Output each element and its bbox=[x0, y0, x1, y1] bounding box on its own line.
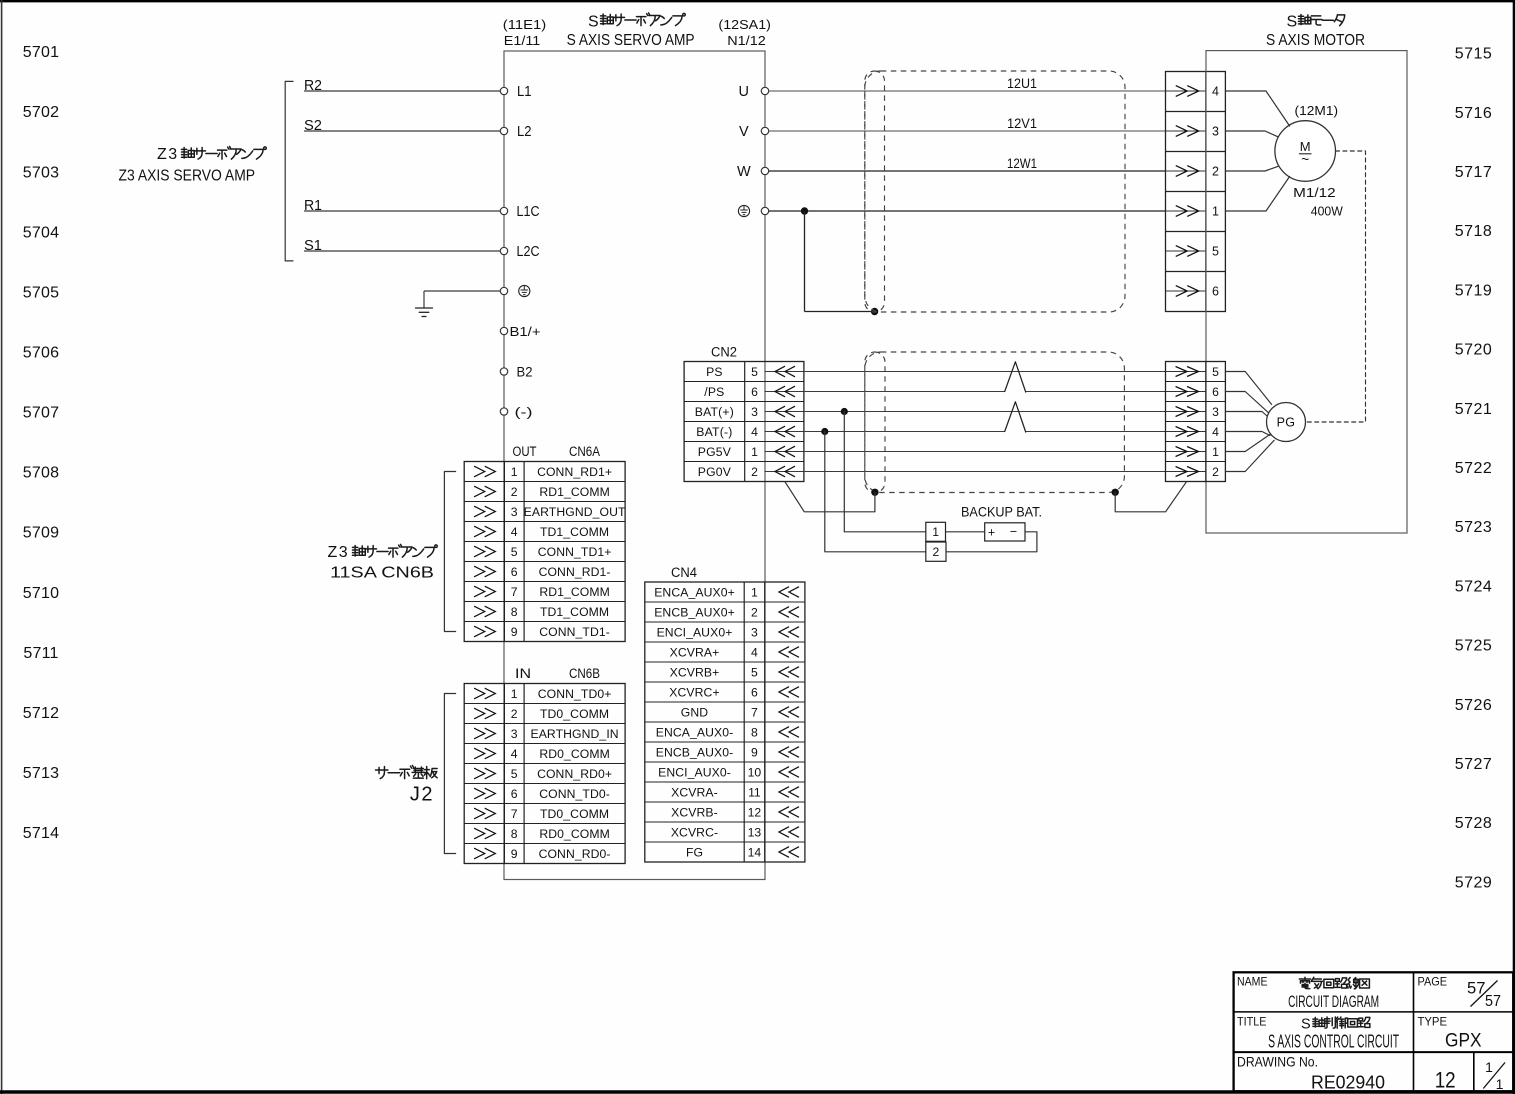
wire through arrow cell encoder pin 5 bbox=[1166, 371, 1206, 373]
svg-text:CONN_RD0-: CONN_RD0- bbox=[539, 847, 611, 861]
junction shield left drain bbox=[871, 489, 878, 496]
svg-text:6: 6 bbox=[751, 685, 758, 699]
svg-text:XCVRB+: XCVRB+ bbox=[670, 665, 720, 679]
svg-text:6: 6 bbox=[1212, 385, 1219, 399]
svg-text:2: 2 bbox=[1212, 165, 1219, 179]
svg-text:10: 10 bbox=[748, 765, 762, 779]
svg-text:5726: 5726 bbox=[1455, 697, 1493, 714]
svg-text:Z3: Z3 bbox=[328, 544, 350, 561]
svg-text:CN2: CN2 bbox=[711, 345, 737, 360]
svg-text:CONN_TD0+: CONN_TD0+ bbox=[538, 687, 612, 701]
svg-text:PG: PG bbox=[1277, 416, 1296, 430]
svg-text:5721: 5721 bbox=[1455, 401, 1493, 418]
svg-text:CONN_RD0+: CONN_RD0+ bbox=[537, 767, 612, 781]
svg-text:ENCB_AUX0-: ENCB_AUX0- bbox=[656, 745, 734, 759]
svg-text:5707: 5707 bbox=[23, 405, 59, 422]
terminal L1C bbox=[500, 207, 507, 214]
wire encoder block shield drain bbox=[1115, 482, 1186, 512]
wire CN2 /PS to motor encoder (left of twist) bbox=[765, 391, 1005, 393]
svg-text:S AXIS CONTROL CIRCUIT: S AXIS CONTROL CIRCUIT bbox=[1268, 1030, 1399, 1051]
sheet fraction slash bbox=[1483, 1063, 1505, 1089]
wire pin3 to motor bbox=[1225, 131, 1278, 137]
svg-text:4: 4 bbox=[511, 747, 518, 761]
arrow in CN6B pin 4 bbox=[474, 748, 495, 759]
label servo board J2 (JP) bbox=[376, 767, 388, 779]
svg-text:14: 14 bbox=[748, 845, 762, 859]
terminal L2C bbox=[500, 247, 507, 254]
wire S1 to terminal L2C bbox=[304, 250, 500, 252]
earth symbol at amp output bbox=[738, 205, 749, 216]
wire pin2 to motor bbox=[1225, 166, 1277, 171]
svg-text:7: 7 bbox=[511, 807, 518, 821]
svg-text:GPX: GPX bbox=[1445, 1029, 1482, 1051]
svg-text:9: 9 bbox=[511, 847, 518, 861]
svg-text:XCVRB-: XCVRB- bbox=[671, 805, 718, 819]
arrow in CN6B pin 1 bbox=[474, 688, 495, 699]
terminal L1 bbox=[500, 87, 507, 94]
svg-text:1: 1 bbox=[1212, 205, 1219, 219]
svg-text:L2: L2 bbox=[517, 124, 532, 140]
svg-text:5701: 5701 bbox=[23, 44, 59, 61]
dashed link motor shaft to PG encoder bbox=[1306, 151, 1366, 422]
svg-text:CIRCUIT DIAGRAM: CIRCUIT DIAGRAM bbox=[1288, 992, 1379, 1011]
wire battery- loop to pin2 bbox=[946, 532, 1037, 552]
svg-text:11: 11 bbox=[748, 785, 761, 799]
arrow into CN4 pin 10 bbox=[779, 767, 799, 778]
svg-text:L2C: L2C bbox=[517, 244, 540, 260]
wire through arrow cell pin 2 bbox=[1166, 170, 1206, 172]
svg-text:1: 1 bbox=[511, 687, 518, 701]
svg-text:5715: 5715 bbox=[1455, 46, 1493, 63]
svg-text:4: 4 bbox=[1212, 425, 1219, 439]
arrow into motor pin 4 bbox=[1176, 86, 1199, 97]
svg-text:S AXIS SERVO AMP: S AXIS SERVO AMP bbox=[567, 32, 695, 49]
svg-text:ENCI_AUX0-: ENCI_AUX0- bbox=[658, 765, 731, 779]
wire CN2 shield drain bbox=[785, 482, 875, 512]
op-amp enclosure U-SA S AXIS SERVO AMP box bbox=[504, 51, 765, 880]
wire CN2 PG0V to motor encoder bbox=[765, 471, 1166, 473]
svg-text:NAME: NAME bbox=[1237, 974, 1268, 988]
svg-text:CN6B: CN6B bbox=[569, 666, 600, 681]
wire through arrow cell encoder pin 4 bbox=[1166, 431, 1206, 433]
svg-text:12U1: 12U1 bbox=[1007, 76, 1037, 91]
wire CN2 PG5V to motor encoder bbox=[765, 451, 1166, 453]
battery BACKUP BAT symbol box bbox=[985, 523, 1025, 541]
svg-text:1: 1 bbox=[511, 465, 518, 479]
svg-text:5719: 5719 bbox=[1455, 282, 1493, 299]
svg-text:1: 1 bbox=[932, 525, 939, 539]
svg-text:~: ~ bbox=[1301, 152, 1309, 167]
junction PE shield tap bbox=[801, 207, 808, 214]
svg-text:3: 3 bbox=[1212, 125, 1219, 139]
svg-text:1: 1 bbox=[1485, 1059, 1493, 1075]
svg-text:DRAWING No.: DRAWING No. bbox=[1237, 1053, 1318, 1069]
arrow into CN4 pin 7 bbox=[779, 707, 799, 718]
svg-text:2: 2 bbox=[511, 485, 518, 499]
svg-text:PS: PS bbox=[706, 365, 723, 379]
arrow into CN4 pin 2 bbox=[779, 607, 799, 618]
svg-text:R1: R1 bbox=[304, 198, 322, 214]
svg-text:XCVRA+: XCVRA+ bbox=[670, 645, 720, 659]
svg-text:400W: 400W bbox=[1311, 204, 1344, 219]
arrow into encoder pin 2 bbox=[1176, 467, 1199, 477]
svg-text:V: V bbox=[739, 124, 749, 140]
wire 12U1 bbox=[769, 90, 1166, 92]
svg-text:EARTHGND_OUT: EARTHGND_OUT bbox=[524, 505, 626, 519]
svg-text:ENCA_AUX0-: ENCA_AUX0- bbox=[656, 725, 734, 739]
svg-text:S: S bbox=[1287, 14, 1298, 31]
svg-text:(12SA1): (12SA1) bbox=[718, 18, 771, 32]
svg-text:S1: S1 bbox=[304, 238, 322, 254]
svg-text:−: − bbox=[1010, 524, 1017, 538]
svg-text:5712: 5712 bbox=[23, 705, 59, 722]
page fraction slash bbox=[1471, 981, 1498, 1007]
arrow into CN2 pin 6 bbox=[775, 386, 795, 397]
svg-text:EARTHGND_IN: EARTHGND_IN bbox=[530, 727, 618, 741]
svg-text:B1/+: B1/+ bbox=[510, 324, 541, 339]
svg-text:TD1_COMM: TD1_COMM bbox=[540, 525, 609, 539]
svg-text:3: 3 bbox=[1212, 405, 1219, 419]
svg-text:RD0_COMM: RD0_COMM bbox=[539, 827, 610, 841]
connector CN6A table bbox=[464, 462, 625, 642]
svg-text:5724: 5724 bbox=[1455, 578, 1493, 595]
svg-text:3: 3 bbox=[511, 505, 518, 519]
svg-text:11SA CN6B: 11SA CN6B bbox=[330, 565, 434, 582]
svg-text:1: 1 bbox=[751, 445, 758, 459]
arrow into CN2 pin 4 bbox=[775, 426, 795, 437]
svg-text:5722: 5722 bbox=[1455, 460, 1493, 477]
terminal U on amp bbox=[761, 87, 768, 94]
svg-text:7: 7 bbox=[511, 585, 518, 599]
svg-text:B2: B2 bbox=[517, 364, 533, 379]
svg-text:3: 3 bbox=[751, 625, 758, 639]
svg-text:CONN_TD0-: CONN_TD0- bbox=[539, 787, 610, 801]
svg-text:S2: S2 bbox=[304, 118, 322, 134]
arrow into encoder pin 1 bbox=[1176, 447, 1199, 457]
connector CN4 table bbox=[645, 582, 805, 862]
svg-text:3: 3 bbox=[751, 405, 758, 419]
terminal V on amp bbox=[761, 127, 768, 134]
svg-text:FG: FG bbox=[686, 845, 703, 859]
wire PE to ground bbox=[424, 290, 500, 292]
title block bbox=[1234, 972, 1514, 1091]
encoder PG circle bbox=[1267, 403, 1306, 442]
svg-text:E1/11: E1/11 bbox=[504, 33, 541, 48]
wire CN2 PS to motor encoder bbox=[765, 371, 1166, 373]
motor enclosure S AXIS MOTOR box bbox=[1206, 51, 1407, 533]
arrow in CN6B pin 2 bbox=[474, 708, 495, 719]
svg-text:BACKUP BAT.: BACKUP BAT. bbox=[961, 504, 1042, 520]
terminal (-) bbox=[500, 408, 507, 415]
svg-text:TD1_COMM: TD1_COMM bbox=[540, 605, 609, 619]
svg-text:J2: J2 bbox=[410, 784, 434, 806]
svg-text:13: 13 bbox=[748, 825, 762, 839]
svg-text:TITLE: TITLE bbox=[1237, 1015, 1267, 1029]
wire CN2 BAT(-) to motor encoder (right of twist) bbox=[1026, 431, 1166, 433]
connector block motor encoder pins bbox=[1166, 362, 1226, 482]
twist crossover BAT pair bbox=[1005, 402, 1026, 432]
svg-text:6: 6 bbox=[751, 385, 758, 399]
svg-text:TD0_COMM: TD0_COMM bbox=[540, 707, 609, 721]
svg-text:ENCI_AUX0+: ENCI_AUX0+ bbox=[657, 625, 733, 639]
wire CN2 BAT(-) to motor encoder (left of twist) bbox=[765, 431, 1005, 433]
wire 12V1 bbox=[769, 130, 1166, 132]
svg-text:N1/12: N1/12 bbox=[727, 33, 766, 48]
svg-text:12: 12 bbox=[1435, 1068, 1456, 1093]
svg-text:5710: 5710 bbox=[23, 585, 59, 602]
wire S2 to terminal L2 bbox=[304, 130, 500, 132]
svg-text:GND: GND bbox=[681, 705, 708, 719]
wire shield drain vertical bbox=[804, 211, 806, 312]
svg-text:5723: 5723 bbox=[1455, 519, 1493, 536]
wire through arrow cell pin 5 bbox=[1166, 250, 1206, 252]
svg-text:L1: L1 bbox=[517, 84, 532, 100]
wire CN2 /PS to motor encoder (right of twist) bbox=[1026, 391, 1166, 393]
arrow into CN4 pin 4 bbox=[779, 647, 799, 658]
arrow into CN2 pin 1 bbox=[775, 446, 795, 457]
arrow into CN4 pin 12 bbox=[779, 807, 799, 818]
wire encoder pin3 to PG bbox=[1225, 412, 1267, 417]
wire ground drop bbox=[423, 291, 425, 308]
wire pin1 to motor bbox=[1225, 177, 1289, 212]
svg-text:5728: 5728 bbox=[1455, 815, 1493, 832]
svg-text:XCVRC+: XCVRC+ bbox=[669, 685, 719, 699]
svg-text:5704: 5704 bbox=[23, 224, 59, 241]
svg-text:12V1: 12V1 bbox=[1007, 116, 1037, 131]
svg-text:2: 2 bbox=[1212, 465, 1219, 479]
svg-text:CONN_RD1-: CONN_RD1- bbox=[539, 565, 611, 579]
svg-text:5705: 5705 bbox=[23, 284, 59, 301]
svg-text:5714: 5714 bbox=[23, 825, 59, 842]
arrow in CN6B pin 9 bbox=[474, 848, 495, 859]
svg-text:2: 2 bbox=[511, 707, 518, 721]
wire encoder pin5 to PG bbox=[1225, 372, 1271, 405]
arrow in CN6B pin 7 bbox=[474, 808, 495, 819]
arrow out CN6A pin 3 bbox=[474, 506, 495, 517]
svg-text:5708: 5708 bbox=[23, 465, 59, 482]
svg-text:CN4: CN4 bbox=[671, 565, 697, 580]
wire encoder pin2 to PG bbox=[1225, 440, 1274, 471]
svg-text:XCVRA-: XCVRA- bbox=[671, 785, 718, 799]
bracket CN6A to Z3 amp bbox=[444, 472, 455, 632]
bracket for Z3 amp source wires bbox=[285, 81, 293, 261]
svg-text:5: 5 bbox=[751, 365, 758, 379]
wire through arrow cell encoder pin 3 bbox=[1166, 411, 1206, 413]
svg-text:CONN_TD1-: CONN_TD1- bbox=[539, 625, 610, 639]
junction BAT(+) tap bbox=[841, 408, 848, 415]
svg-text:5725: 5725 bbox=[1455, 638, 1493, 655]
svg-text:(-): (-) bbox=[515, 405, 533, 420]
arrow into CN4 pin 8 bbox=[779, 727, 799, 738]
terminal B1/+ bbox=[500, 327, 507, 334]
svg-text:9: 9 bbox=[511, 625, 518, 639]
arrow in CN6B pin 5 bbox=[474, 768, 495, 779]
twist crossover PS//PS pair bbox=[1005, 362, 1026, 392]
svg-text:4: 4 bbox=[511, 525, 518, 539]
svg-text:TYPE: TYPE bbox=[1418, 1015, 1448, 1029]
wire encoder pin4 to PG bbox=[1225, 432, 1270, 436]
arrow in CN6B pin 8 bbox=[474, 828, 495, 839]
arrow out CN6A pin 2 bbox=[474, 486, 495, 497]
svg-text:5: 5 bbox=[751, 665, 758, 679]
earth symbol at PE terminal bbox=[519, 285, 530, 296]
svg-text:8: 8 bbox=[511, 827, 518, 841]
svg-text:57: 57 bbox=[1485, 993, 1501, 1010]
junction shield connection upper cable bbox=[871, 308, 878, 315]
svg-text:4: 4 bbox=[1212, 85, 1219, 99]
svg-text:M1/12: M1/12 bbox=[1293, 185, 1336, 200]
svg-text:RD1_COMM: RD1_COMM bbox=[539, 485, 610, 499]
svg-text:ENCA_AUX0+: ENCA_AUX0+ bbox=[654, 585, 735, 599]
connector CN6B table bbox=[464, 684, 625, 864]
arrow into motor pin 5 bbox=[1176, 246, 1199, 257]
arrow into encoder pin 4 bbox=[1176, 427, 1199, 437]
svg-text:XCVRC-: XCVRC- bbox=[671, 825, 718, 839]
svg-text:6: 6 bbox=[511, 565, 518, 579]
svg-text:2: 2 bbox=[751, 465, 758, 479]
svg-text:5717: 5717 bbox=[1455, 164, 1493, 181]
wire through arrow cell pin 6 bbox=[1166, 290, 1206, 292]
arrow into encoder pin 5 bbox=[1176, 367, 1199, 377]
arrow out CN6A pin 8 bbox=[474, 606, 495, 617]
svg-text:RE02940: RE02940 bbox=[1311, 1071, 1385, 1092]
svg-text:1: 1 bbox=[1496, 1076, 1504, 1092]
junction BAT(-) tap bbox=[821, 428, 828, 435]
arrow into motor pin 2 bbox=[1176, 166, 1199, 177]
connector CN2 table bbox=[684, 362, 804, 482]
arrow into CN4 pin 5 bbox=[779, 667, 799, 678]
JP title S AXIS CONTROL CIRCUIT bbox=[1313, 1017, 1325, 1027]
wire through arrow cell encoder pin 1 bbox=[1166, 451, 1206, 453]
svg-text:6: 6 bbox=[1212, 285, 1219, 299]
wire encoder pin1 to PG bbox=[1225, 434, 1270, 451]
junction shield right drain bbox=[1112, 489, 1119, 496]
JP title CIRCUIT DIAGRAM bbox=[1299, 977, 1310, 988]
arrow in CN6B pin 6 bbox=[474, 788, 495, 799]
svg-text:4: 4 bbox=[751, 425, 758, 439]
svg-text:RD1_COMM: RD1_COMM bbox=[539, 585, 610, 599]
arrow into CN4 pin 14 bbox=[779, 847, 799, 858]
svg-text:6: 6 bbox=[511, 787, 518, 801]
svg-text:5: 5 bbox=[511, 767, 518, 781]
svg-text:IN: IN bbox=[515, 666, 531, 681]
arrow into CN2 pin 3 bbox=[775, 406, 795, 417]
wire PE to motor bbox=[769, 210, 1166, 212]
svg-text:5711: 5711 bbox=[23, 645, 58, 662]
svg-text:RD0_COMM: RD0_COMM bbox=[539, 747, 610, 761]
svg-text:8: 8 bbox=[511, 605, 518, 619]
svg-text:BAT(+): BAT(+) bbox=[695, 405, 734, 419]
arrow out CN6A pin 9 bbox=[474, 626, 495, 637]
arrow into CN4 pin 1 bbox=[779, 587, 799, 598]
svg-text:5709: 5709 bbox=[23, 525, 59, 542]
svg-text:7: 7 bbox=[751, 705, 758, 719]
svg-text:CONN_TD1+: CONN_TD1+ bbox=[538, 545, 612, 559]
svg-text:S AXIS MOTOR: S AXIS MOTOR bbox=[1266, 32, 1365, 49]
arrow into CN4 pin 3 bbox=[779, 627, 799, 638]
arrow into motor pin 6 bbox=[1176, 286, 1199, 297]
svg-text:5702: 5702 bbox=[23, 104, 59, 121]
svg-text:PG5V: PG5V bbox=[698, 445, 732, 459]
svg-text:CN6A: CN6A bbox=[569, 444, 600, 459]
svg-text:12: 12 bbox=[748, 805, 762, 819]
svg-text:Z3: Z3 bbox=[157, 146, 179, 163]
svg-text:(11E1): (11E1) bbox=[503, 18, 547, 32]
svg-text:5703: 5703 bbox=[23, 164, 59, 181]
svg-text:5718: 5718 bbox=[1455, 223, 1493, 240]
wire through arrow cell pin 1 bbox=[1166, 210, 1206, 212]
svg-text:ENCB_AUX0+: ENCB_AUX0+ bbox=[654, 605, 735, 619]
svg-text:1: 1 bbox=[751, 585, 758, 599]
wire through arrow cell encoder pin 6 bbox=[1166, 391, 1206, 393]
wire R2 to terminal L1 bbox=[304, 90, 500, 92]
wire through arrow cell pin 3 bbox=[1166, 130, 1206, 132]
wire CN2 BAT(+) to motor encoder bbox=[765, 411, 1166, 413]
battery connector pin 1 box bbox=[926, 522, 946, 541]
svg-text:5: 5 bbox=[1212, 365, 1219, 379]
arrow into motor pin 1 bbox=[1176, 206, 1199, 217]
svg-text:S: S bbox=[588, 14, 599, 31]
arrow in CN6B pin 3 bbox=[474, 728, 495, 739]
arrow into CN2 pin 5 bbox=[775, 366, 795, 377]
svg-text:BAT(-): BAT(-) bbox=[696, 425, 732, 439]
svg-text:PG0V: PG0V bbox=[698, 465, 732, 479]
arrow into encoder pin 6 bbox=[1176, 387, 1199, 397]
arrow out CN6A pin 6 bbox=[474, 566, 495, 577]
wire pin1 to battery+ bbox=[946, 531, 985, 533]
shield of motor power cable (dashed) bbox=[865, 71, 1125, 312]
svg-text:4: 4 bbox=[751, 645, 758, 659]
terminal B2 bbox=[500, 368, 507, 375]
svg-text:/PS: /PS bbox=[704, 385, 724, 399]
wire encoder pin6 to PG bbox=[1225, 392, 1268, 413]
arrow into motor pin 3 bbox=[1176, 126, 1199, 137]
ground symbol bbox=[415, 307, 433, 309]
arrow into encoder pin 3 bbox=[1176, 407, 1199, 417]
svg-text:1: 1 bbox=[1212, 445, 1219, 459]
svg-text:(12M1): (12M1) bbox=[1295, 103, 1339, 118]
arrow out CN6A pin 7 bbox=[474, 586, 495, 597]
motor M1/12 circle bbox=[1275, 121, 1336, 182]
bracket CN6B to servo board J2 bbox=[444, 694, 455, 854]
svg-text:L1C: L1C bbox=[517, 204, 540, 220]
svg-text:W: W bbox=[737, 164, 751, 180]
svg-text:U: U bbox=[739, 84, 749, 100]
wire pin4 to motor bbox=[1225, 91, 1289, 126]
arrow into CN4 pin 6 bbox=[779, 687, 799, 698]
wire through arrow cell pin 4 bbox=[1166, 90, 1206, 92]
connector block motor power pins bbox=[1166, 72, 1226, 312]
svg-text:3: 3 bbox=[511, 727, 518, 741]
svg-text:CONN_RD1+: CONN_RD1+ bbox=[537, 465, 612, 479]
arrow into CN4 pin 13 bbox=[779, 827, 799, 838]
arrow into CN4 pin 9 bbox=[779, 747, 799, 758]
wire BAT(+) to backup battery pin1 bbox=[844, 412, 926, 532]
arrow out CN6A pin 1 bbox=[474, 466, 495, 477]
svg-text:5720: 5720 bbox=[1455, 342, 1493, 359]
svg-text:5729: 5729 bbox=[1455, 874, 1493, 891]
wire BAT(-) to backup battery pin2 bbox=[825, 432, 926, 552]
svg-text:8: 8 bbox=[751, 725, 758, 739]
battery connector pin 2 box bbox=[926, 542, 946, 561]
svg-text:5713: 5713 bbox=[23, 765, 59, 782]
arrow into CN4 pin 11 bbox=[779, 787, 799, 798]
svg-text:12W1: 12W1 bbox=[1007, 156, 1037, 171]
arrow into CN2 pin 2 bbox=[775, 466, 795, 477]
terminal L2 bbox=[500, 127, 507, 134]
terminal PE out on amp bbox=[761, 207, 768, 214]
wire R1 to terminal L1C bbox=[304, 210, 500, 212]
